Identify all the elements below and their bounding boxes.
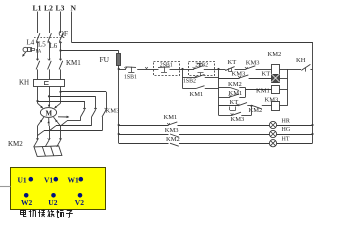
svg-text:KM3: KM3 <box>265 96 279 103</box>
svg-text:KM1: KM1 <box>229 90 243 97</box>
svg-text:KM2: KM2 <box>268 51 282 58</box>
svg-text:V1: V1 <box>44 175 53 184</box>
svg-text:HG: HG <box>282 127 291 133</box>
svg-text:W2: W2 <box>21 198 33 207</box>
svg-text:FU: FU <box>100 55 110 64</box>
svg-text:HT: HT <box>282 137 290 143</box>
svg-text:KT: KT <box>230 99 239 106</box>
svg-text:U1: U1 <box>18 175 27 184</box>
svg-text:M: M <box>46 109 53 117</box>
svg-text:V2: V2 <box>75 198 84 207</box>
svg-text:L4: L4 <box>27 40 35 47</box>
svg-text:L1: L1 <box>33 3 42 12</box>
svg-text:L2: L2 <box>44 3 53 12</box>
svg-text:KM3: KM3 <box>165 127 179 134</box>
svg-text:L5: L5 <box>38 42 46 49</box>
svg-text:KM2: KM2 <box>8 140 23 148</box>
svg-text:KM2: KM2 <box>166 136 180 143</box>
svg-text:KM2: KM2 <box>249 107 263 114</box>
svg-text:KM1: KM1 <box>190 91 204 98</box>
svg-text:KM3: KM3 <box>106 108 120 115</box>
svg-text:KM1: KM1 <box>66 59 81 67</box>
svg-text:KM1: KM1 <box>164 114 178 121</box>
svg-text:W1: W1 <box>68 175 80 184</box>
svg-text:QF: QF <box>59 29 69 38</box>
svg-text:1SB2: 1SB2 <box>183 78 196 84</box>
svg-text:KM3: KM3 <box>246 60 260 67</box>
svg-text:KT: KT <box>262 71 271 78</box>
svg-text:HR: HR <box>282 118 290 124</box>
svg-text:KM3: KM3 <box>231 116 245 123</box>
svg-text:U2: U2 <box>48 198 57 207</box>
svg-text:L6: L6 <box>50 43 58 50</box>
svg-text:FA: FA <box>36 50 42 55</box>
svg-text:KH: KH <box>296 57 306 64</box>
svg-text:N: N <box>71 3 77 12</box>
svg-text:KT: KT <box>228 59 237 66</box>
svg-text:KM3: KM3 <box>232 71 246 78</box>
svg-text:KH: KH <box>19 79 29 87</box>
svg-text:KM1: KM1 <box>256 87 270 94</box>
svg-text:L3: L3 <box>56 3 65 12</box>
svg-text:1SB1: 1SB1 <box>124 75 137 81</box>
svg-text:KM2: KM2 <box>228 81 242 88</box>
